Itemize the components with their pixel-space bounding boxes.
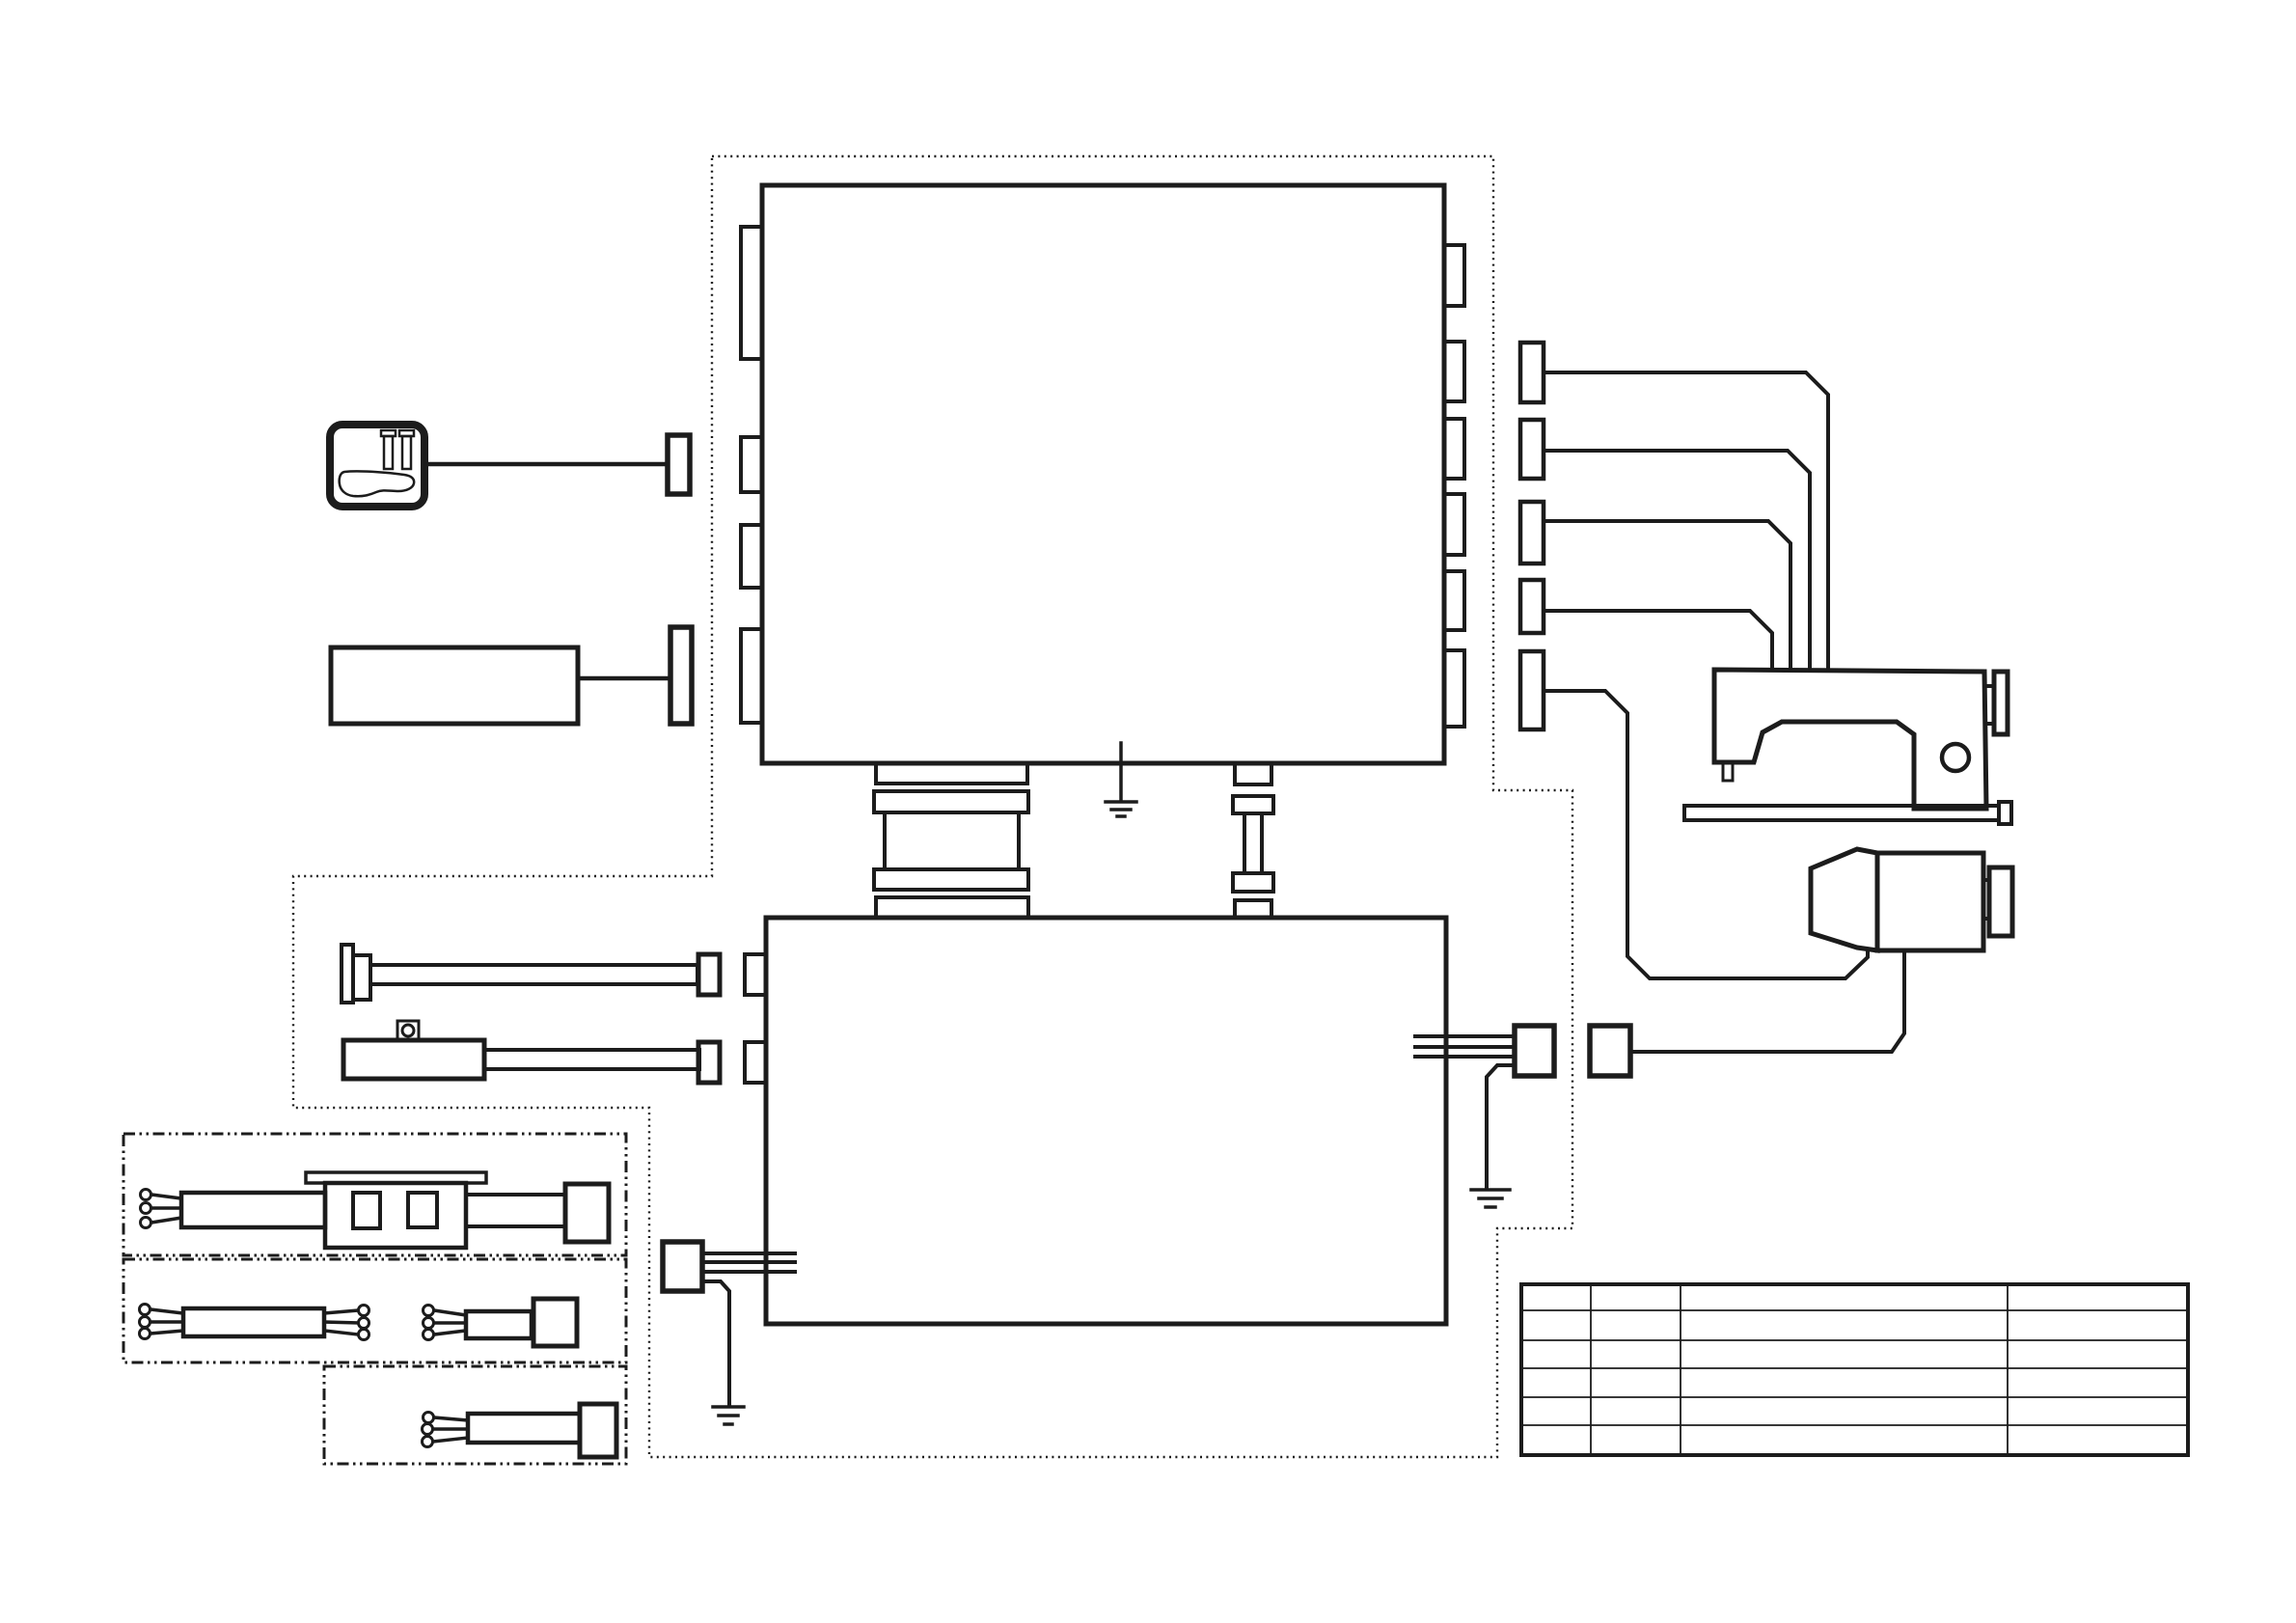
harness connector G3 xyxy=(1520,502,1544,564)
cable stack right: stub 1 xyxy=(1235,763,1271,784)
cable stack right: plate 1 xyxy=(1233,796,1273,813)
cable stack right: plate 2 xyxy=(1233,873,1273,892)
cable C connector xyxy=(580,1404,616,1457)
cable A sleeve xyxy=(181,1193,325,1227)
ground lead (top box) xyxy=(1119,743,1123,801)
ground wire from E1 xyxy=(702,1281,729,1406)
harness wire 1 xyxy=(1544,372,1828,670)
rod assembly: flange xyxy=(353,955,370,1000)
foot pedal xyxy=(330,425,424,507)
plug A hole 2 xyxy=(408,1193,437,1227)
connector R3 (box right) xyxy=(1444,419,1464,479)
knee switch: button housing xyxy=(397,1021,419,1040)
solenoid plug xyxy=(670,627,692,724)
knee switch: body xyxy=(343,1040,484,1079)
rod assembly: plug xyxy=(698,954,720,995)
title block table xyxy=(1521,1284,2188,1455)
sewing machine head xyxy=(1714,670,1986,809)
lower control box xyxy=(766,918,1446,1324)
cable stack right: stub 2 xyxy=(1235,900,1271,918)
knee switch: plug xyxy=(698,1042,720,1083)
cable stack left: plate 3 xyxy=(874,869,1028,890)
connector L3 (box left) xyxy=(741,525,762,588)
wires lower box to D1 xyxy=(1415,1034,1515,1038)
cable B1 sleeve xyxy=(183,1308,324,1336)
harness connector G4 xyxy=(1520,580,1544,633)
cable A lead wires xyxy=(151,1195,181,1223)
harness wire 4 xyxy=(1544,611,1772,670)
knee switch: cable xyxy=(484,1050,699,1069)
motor pulley xyxy=(1989,867,2012,936)
harness connector G2 xyxy=(1520,420,1544,479)
plug A body xyxy=(325,1183,466,1248)
knee switch: button xyxy=(402,1025,414,1036)
motor gearbox xyxy=(1811,849,1877,950)
harness wire 2 xyxy=(1544,451,1810,670)
connector R1 (box right) xyxy=(1444,245,1464,306)
cable A right sleeve xyxy=(466,1195,565,1226)
pedal slot 2 xyxy=(399,430,414,469)
cable stack right: rod xyxy=(1244,813,1262,873)
cable stack left: body xyxy=(885,812,1019,869)
pedal slot 1 xyxy=(381,430,396,469)
cable B2 sleeve xyxy=(466,1311,532,1338)
cable stack left: plate 2 xyxy=(874,791,1028,812)
connector R4 (box right) xyxy=(1444,494,1464,555)
ground wire from D1 xyxy=(1487,1065,1515,1189)
option box B (dash-dot) xyxy=(123,1259,626,1362)
harness connector G5 xyxy=(1520,651,1544,729)
harness connector G1 xyxy=(1520,343,1544,402)
connector E1 (lower box left plug) xyxy=(663,1242,702,1291)
motor pulley tabs xyxy=(1983,878,1989,882)
cable stack left: plate 1 xyxy=(876,763,1027,784)
plug A hole 1 xyxy=(353,1193,380,1228)
option box A (dash-dot) xyxy=(123,1134,626,1255)
connector R5 (box right) xyxy=(1444,571,1464,630)
base plate end cap xyxy=(1999,802,2011,824)
cable B1 right leads xyxy=(324,1310,358,1334)
connector R6 (box right) xyxy=(1444,650,1464,727)
pedal cable xyxy=(424,462,668,467)
connector L2 (box left) xyxy=(741,437,762,492)
cable A terminals xyxy=(141,1190,151,1228)
plug A connector xyxy=(565,1184,609,1242)
ground symbol (right) xyxy=(1471,1190,1510,1207)
plug A top plate xyxy=(306,1172,486,1183)
cable B1 left terminals xyxy=(140,1305,150,1339)
cable B1 left leads xyxy=(150,1309,183,1334)
motor output wire xyxy=(1630,950,1904,1052)
presser bar xyxy=(1723,762,1733,781)
option box C (dash-dot) xyxy=(324,1366,626,1464)
ground symbol (center) xyxy=(1106,802,1136,816)
connector C2 (lower box left) xyxy=(745,1042,766,1083)
cable B2 connector xyxy=(533,1299,577,1346)
cable B2 leads xyxy=(434,1310,466,1334)
connector R2 (box right) xyxy=(1444,342,1464,401)
cable B1 right terminals xyxy=(359,1306,369,1340)
cable stack left: plate 4 xyxy=(876,897,1028,918)
wires E1 to lower box xyxy=(702,1252,795,1255)
control box (top) xyxy=(762,185,1444,763)
cable B2 terminals xyxy=(424,1306,434,1340)
dotted enclosure boundary (machine table outline) xyxy=(293,156,1572,1457)
harness wire 5 (to motor) xyxy=(1544,691,1868,978)
cable C sleeve xyxy=(468,1414,580,1443)
solenoid unit xyxy=(331,647,578,724)
connector D1 (box plug) xyxy=(1515,1026,1554,1076)
harness wire 3 xyxy=(1544,521,1790,670)
machine pulley tabs xyxy=(1986,684,1994,688)
pedal plug xyxy=(668,435,690,494)
pedal foot outline xyxy=(340,471,415,496)
connector L4 (box left) xyxy=(741,629,762,723)
rod assembly: end plate xyxy=(342,945,353,1003)
connector D2 (motor plug) xyxy=(1590,1026,1630,1076)
machine base plate xyxy=(1684,806,1999,820)
ground symbol (left) xyxy=(713,1407,744,1424)
motor body xyxy=(1877,853,1983,950)
machine pulley xyxy=(1994,672,2008,734)
connector C1 (lower box left) xyxy=(745,954,766,995)
rod assembly: shaft xyxy=(370,965,697,984)
hand hole xyxy=(1942,744,1969,771)
cable C terminals xyxy=(423,1413,434,1447)
solenoid cable xyxy=(578,676,670,681)
cable C leads xyxy=(433,1417,468,1442)
connector L1 (box left) xyxy=(741,227,762,359)
